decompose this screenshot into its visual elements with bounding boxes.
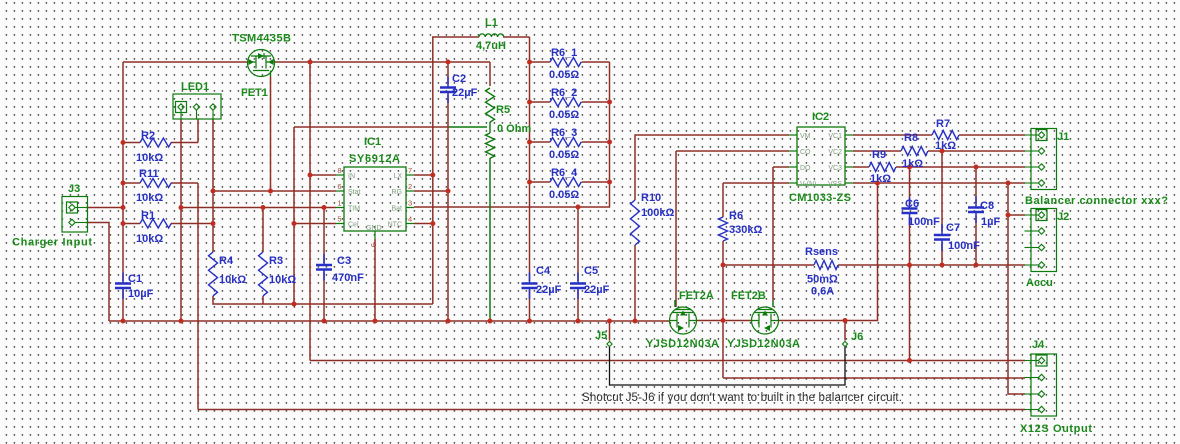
svg-text:FET1: FET1 xyxy=(241,87,268,99)
resistor R3 xyxy=(259,252,268,296)
junction R9 line/C8 xyxy=(974,165,979,170)
wire R6_4 row leads xyxy=(530,181,610,183)
connector J3 pin1 stub xyxy=(75,207,87,209)
svg-text:J3: J3 xyxy=(68,183,80,195)
wire VC3 lead to R9 xyxy=(853,166,869,168)
node J5 pad xyxy=(607,341,612,346)
svg-text:FET2A: FET2A xyxy=(679,290,714,302)
svg-text:IN: IN xyxy=(348,173,355,180)
junction Bat/C5 xyxy=(576,205,581,210)
junction R8 line/C7 column xyxy=(940,149,945,154)
svg-text:J4: J4 xyxy=(1032,339,1045,351)
capacitor C7 xyxy=(934,235,950,240)
svg-text:C5: C5 xyxy=(584,265,598,277)
connector LED1 box xyxy=(173,94,221,119)
transistor FET2B circle xyxy=(752,307,779,334)
svg-text:0.05Ω: 0.05Ω xyxy=(549,189,579,201)
resistor R9 xyxy=(869,163,896,172)
svg-text:L1: L1 xyxy=(485,17,498,29)
svg-text:IC1: IC1 xyxy=(364,136,381,148)
wire C6 net down to 359 rail xyxy=(909,265,911,361)
svg-text:J6: J6 xyxy=(851,331,863,343)
junction Stat end pad3 xyxy=(211,189,216,194)
svg-text:J5: J5 xyxy=(595,330,607,342)
wire C4 column below rail crossing Bat line xyxy=(529,280,531,283)
svg-text:VC1: VC1 xyxy=(828,133,842,140)
svg-text:C3: C3 xyxy=(337,255,351,267)
wire FET1 gate down to Stat line xyxy=(270,77,272,192)
wire Stat line from pad3 column to IC1 xyxy=(213,190,336,192)
capacitor C4 xyxy=(522,284,538,289)
wire LED1 pad1 column down to GND rail xyxy=(180,119,182,321)
junction TIM/R3 xyxy=(261,205,266,210)
wire L1 right to left rail top corner xyxy=(503,37,530,281)
wire Rsens rail left part xyxy=(723,264,814,266)
resistor R2 xyxy=(140,138,171,147)
junction GND/C5 xyxy=(576,319,581,324)
resistor R6_3 xyxy=(550,138,581,147)
junction VSS/x1008 xyxy=(1006,181,1011,186)
connector J4 pin 3 pad and stub xyxy=(1025,393,1039,395)
wire CO line corner down to FET2A gate xyxy=(676,151,789,307)
wire J2 pin1 branch xyxy=(1008,214,1025,216)
junction LX/x432 xyxy=(430,173,435,178)
svg-text:LED1: LED1 xyxy=(181,81,209,93)
junction GND/LED pad1 xyxy=(179,319,184,324)
junction GND/R10 xyxy=(633,319,638,324)
svg-text:0.05Ω: 0.05Ω xyxy=(549,149,579,161)
svg-text:NTC: NTC xyxy=(388,222,402,229)
wire FET1 drain line y=62 to R5 top corner xyxy=(275,62,491,86)
wire TIM line from pad1 column to IC1 xyxy=(181,207,336,209)
junction 359 rail/C6 net xyxy=(907,358,912,363)
wire J3 pad1 to left rail xyxy=(86,207,123,209)
wire FET2B gate lower green part xyxy=(772,301,774,307)
svg-text:Rsens: Rsens xyxy=(805,246,838,258)
svg-text:LX: LX xyxy=(393,173,402,180)
wire C7 column from R8 line down to Rsens rail xyxy=(941,151,943,265)
svg-text:0 Ohm: 0 Ohm xyxy=(497,123,531,135)
svg-text:Accu: Accu xyxy=(1026,277,1053,289)
junction right rail/R6_2 xyxy=(607,100,612,105)
wire left charger+ rail x=123 top corner down to C1 top plate xyxy=(122,62,124,281)
wire R5 mid tap line red part xyxy=(294,126,449,128)
svg-text:R9: R9 xyxy=(872,149,886,161)
svg-text:SY6912A: SY6912A xyxy=(349,153,400,165)
wire Rsens rail right part to J2 pin4 xyxy=(838,264,1025,266)
svg-text:FET2B: FET2B xyxy=(731,290,766,302)
wire J6 stub from FET line xyxy=(844,321,846,341)
svg-text:4,7uH: 4,7uH xyxy=(476,40,506,52)
svg-text:R6_2: R6_2 xyxy=(551,87,577,99)
svg-text:R1: R1 xyxy=(141,210,155,222)
wire J5 stub from GND rail xyxy=(609,321,611,341)
svg-text:VM: VM xyxy=(800,133,811,140)
connector J4 box xyxy=(1031,354,1057,416)
node J6 pad xyxy=(842,341,847,346)
resistor R6_1 xyxy=(550,58,581,67)
connector J1 pin 2 pad and stub xyxy=(1025,150,1039,152)
wire DO line corner down to FET2B gate xyxy=(773,167,789,301)
wire R9 right to J1 pin3 xyxy=(896,166,1025,168)
junction GND/R5 xyxy=(488,319,493,324)
svg-text:22µF: 22µF xyxy=(584,284,610,296)
connector J2 pin 1 pad and stub xyxy=(1025,214,1039,216)
resistor R5 lower zigzag xyxy=(486,133,495,158)
svg-text:VC2: VC2 xyxy=(828,149,842,156)
wire R2 right lead up to LED1 pad2 xyxy=(171,119,198,143)
svg-text:GND: GND xyxy=(366,225,382,232)
wire R6_3 row leads xyxy=(530,141,610,143)
svg-text:CM1033-ZS: CM1033-ZS xyxy=(789,192,851,204)
IC block IC2 box xyxy=(797,127,845,185)
wire R8 right to J1 pin2 with C7 branch xyxy=(928,150,1025,152)
connector J4 pin 4 pad and stub xyxy=(1025,409,1039,411)
capacitor C1 xyxy=(115,284,131,289)
wire R1 left lead xyxy=(123,223,140,225)
junction GND/IC1 GND xyxy=(373,319,378,324)
svg-text:9: 9 xyxy=(369,243,378,247)
junction RG/C2 column xyxy=(446,189,451,194)
capacitor C5 xyxy=(570,284,586,289)
connector J1 pin 3 pad and stub xyxy=(1025,166,1039,168)
svg-text:R5: R5 xyxy=(496,104,510,116)
wire IC1 GND pin down to GND rail xyxy=(374,239,376,321)
junction TIM/C3 xyxy=(322,205,327,210)
junction x294/rail304 xyxy=(292,302,297,307)
svg-text:C8: C8 xyxy=(980,200,994,212)
wire FET2A gate stub green xyxy=(674,300,676,307)
junction GND/C1 xyxy=(121,319,126,324)
junction Rsens rail/C7 xyxy=(940,263,945,268)
svg-text:50mΩ: 50mΩ xyxy=(807,274,838,286)
wire VC2 lead to R8 xyxy=(853,150,901,152)
svg-text:R6_3: R6_3 xyxy=(551,127,577,139)
wire R7 right to J1 pin1 xyxy=(959,134,1025,136)
wire charger+ top line from left rail to FET1 source xyxy=(123,61,248,63)
connector J3 box xyxy=(62,197,88,233)
junction R9 line/C6 xyxy=(907,165,912,170)
wire VSS rail y=183 from IC2 to J1 pin4 xyxy=(853,182,1025,184)
junction rail/R6_2 xyxy=(527,100,532,105)
resistor R10 xyxy=(631,200,640,245)
svg-text:Balancer connector xxx?: Balancer connector xxx? xyxy=(1025,195,1168,207)
connector J4 pin 2 pad and stub xyxy=(1025,377,1039,379)
junction left rail/R1 xyxy=(121,221,126,226)
resistor R7 xyxy=(932,131,959,140)
wire R5 mid tap line green part xyxy=(449,126,487,128)
wire R1 right lead to R4 top node xyxy=(171,223,213,225)
junction NTC/x432 xyxy=(430,221,435,226)
wire C8 bottom to Rsens rail xyxy=(975,216,977,266)
svg-text:R8: R8 xyxy=(904,132,918,144)
svg-text:1kΩ: 1kΩ xyxy=(935,140,956,152)
junction pad1 column/TIM line xyxy=(179,205,184,210)
transistor FET2B internals xyxy=(752,310,779,328)
wire x=1008 column VSS to J4 pin3 xyxy=(1008,183,1025,394)
inductor L1 xyxy=(479,34,504,37)
svg-text:R10: R10 xyxy=(641,192,661,204)
svg-text:100nF: 100nF xyxy=(908,216,940,228)
connector J2 pin1 square xyxy=(1036,210,1047,221)
svg-text:10kΩ: 10kΩ xyxy=(136,233,163,245)
wire C1 bottom lead to GND xyxy=(122,289,124,321)
op-amp/IC U-block IC1 box xyxy=(344,167,406,231)
wire jumper note J5-J6 black line xyxy=(610,347,846,385)
connector LED1 pin stubs down xyxy=(181,110,213,119)
resistor R8 xyxy=(901,147,928,156)
svg-text:Bat: Bat xyxy=(391,206,402,213)
svg-text:1µF: 1µF xyxy=(981,216,1000,228)
connector J2 pin 3 pad and stub xyxy=(1025,247,1039,249)
wire R2 left lead xyxy=(123,142,140,144)
svg-text:YJSD12N03A: YJSD12N03A xyxy=(727,338,800,350)
svg-text:0.05Ω: 0.05Ω xyxy=(549,69,579,81)
resistor R6 xyxy=(719,217,728,241)
svg-text:1kΩ: 1kΩ xyxy=(870,173,891,185)
svg-text:22µF: 22µF xyxy=(452,87,478,99)
wire V- line corner and R6 top lead xyxy=(723,183,789,217)
FET1 source/drain arrows xyxy=(249,59,255,65)
junction Rsens rail/R6 xyxy=(721,263,726,268)
svg-text:1kΩ: 1kΩ xyxy=(902,158,923,170)
svg-text:6: 6 xyxy=(337,182,341,191)
resistor R4 xyxy=(209,252,218,296)
svg-text:100kΩ: 100kΩ xyxy=(641,207,674,219)
capacitor C3 xyxy=(316,265,332,270)
connector LED1 pads xyxy=(178,104,184,110)
transistor FET2A circle xyxy=(670,307,697,334)
wire R6 column below FET line to 378 corner xyxy=(722,321,724,379)
wire R6 right rail x=609.5 xyxy=(414,62,610,207)
resistor R6_4 xyxy=(550,178,581,187)
resistor Rsens xyxy=(814,261,838,270)
svg-text:VC3: VC3 xyxy=(828,165,842,172)
wire R6_1 row leads xyxy=(530,61,610,63)
svg-text:CO: CO xyxy=(800,149,811,156)
svg-text:1: 1 xyxy=(337,199,341,208)
svg-text:YJSD12N03A: YJSD12N03A xyxy=(646,338,719,350)
wire C4 bottom to GND xyxy=(529,290,531,321)
svg-text:R3: R3 xyxy=(269,255,283,267)
svg-text:5: 5 xyxy=(337,215,341,224)
svg-text:R2: R2 xyxy=(141,130,155,142)
wire R6 bottom lead to Rsens rail junction and down to FET mid xyxy=(722,241,724,321)
svg-text:7: 7 xyxy=(408,166,412,175)
wire Cel line from x=294 to IC1 xyxy=(294,223,336,225)
wire IN net vertical x=310 from y62 down to 360 corner xyxy=(309,62,311,361)
junction R6 left rail rows xyxy=(527,60,532,65)
svg-text:RG: RG xyxy=(392,189,403,196)
junction GND/C4 xyxy=(527,319,532,324)
capacitor C8 xyxy=(968,208,984,213)
transistor FET1 internals xyxy=(248,56,275,77)
wire C6 column top xyxy=(909,167,911,205)
svg-text:R6_1: R6_1 xyxy=(551,47,577,59)
svg-text:TIM: TIM xyxy=(348,206,360,213)
wire R11 left lead xyxy=(123,182,140,184)
svg-text:2: 2 xyxy=(408,182,412,191)
connector J1 pin1 square xyxy=(1036,130,1047,141)
wire C3 column from TIM line to GND xyxy=(323,208,325,322)
junction Rsens rail/C6 xyxy=(907,263,912,268)
transistor FET1 TSM4435B circle xyxy=(248,50,275,77)
wire FET2B source to corner up x=877.5 xyxy=(779,183,878,321)
FET1 body diode arrow xyxy=(258,53,264,59)
svg-text:10kΩ: 10kΩ xyxy=(219,274,246,286)
wire 409 rail to J4 pin4 xyxy=(198,409,1025,411)
IC1 pin stubs xyxy=(336,175,414,239)
junction left rail/R11 xyxy=(121,181,126,186)
wire RG line from IC1 to C2 column xyxy=(414,190,448,192)
wire FET mid segment GND-FET2B xyxy=(697,320,751,322)
junction x1008/J2 pin1 xyxy=(1006,213,1011,218)
svg-text:8: 8 xyxy=(337,166,341,175)
connector J3 pin2 pad xyxy=(69,219,75,225)
junction FET1 gate/Stat xyxy=(268,189,273,194)
svg-text:Shotcut J5-J6 if you don't wan: Shotcut J5-J6 if you don't want to built… xyxy=(582,392,902,404)
svg-text:C2: C2 xyxy=(452,73,466,85)
capacitor C2 xyxy=(440,88,456,93)
svg-text:10µF: 10µF xyxy=(128,288,154,300)
svg-text:IC2: IC2 xyxy=(812,111,829,123)
svg-text:470nF: 470nF xyxy=(332,272,364,284)
svg-text:C4: C4 xyxy=(536,265,551,277)
connector J3 pin1 pad xyxy=(69,204,75,210)
wire R3 top feed from TIM line xyxy=(262,208,264,253)
wire NTC line from IC1 to x=432.8 xyxy=(414,223,433,225)
wire VC1 lead to R7 xyxy=(853,134,932,136)
junction GND/J5 xyxy=(607,319,612,324)
svg-text:Cel: Cel xyxy=(348,222,359,229)
svg-text:R11: R11 xyxy=(139,168,159,180)
svg-text:10kΩ: 10kΩ xyxy=(136,192,163,204)
svg-text:DO: DO xyxy=(800,165,811,172)
wire R10 bottom to GND xyxy=(634,245,636,321)
junction Rsens rail/C8 xyxy=(974,263,979,268)
resistor R5 lower section xyxy=(489,122,491,133)
resistor R6_2 xyxy=(550,98,581,107)
junction GND/C2 xyxy=(446,319,451,324)
svg-text:3: 3 xyxy=(408,199,412,208)
junction VSS/x877 xyxy=(875,181,880,186)
resistor R11 xyxy=(140,179,171,188)
IC2 pin stubs xyxy=(789,135,853,183)
wire C8 column from R9 line xyxy=(975,167,977,204)
connector J1 pin 4 pad and stub xyxy=(1025,182,1039,184)
capacitor C6 xyxy=(902,209,918,214)
svg-text:10kΩ: 10kΩ xyxy=(136,152,163,164)
FET2A arrows xyxy=(680,311,686,316)
svg-text:C6: C6 xyxy=(905,198,919,210)
svg-text:22µF: 22µF xyxy=(536,284,562,296)
junction R1/R4/pad3 node xyxy=(211,221,216,226)
wire C5 top lead from Bat line xyxy=(577,207,579,281)
svg-text:C1: C1 xyxy=(128,273,142,285)
svg-text:C7: C7 xyxy=(946,222,960,234)
connector LED1 pin1 square xyxy=(176,102,187,113)
wire R5 bottom lead to GND xyxy=(489,158,491,321)
svg-text:R6: R6 xyxy=(729,210,743,222)
connector J1 pin 1 pad and stub xyxy=(1025,134,1039,136)
svg-text:X12S Output: X12S Output xyxy=(1020,423,1092,435)
junction FET2B line/J6 xyxy=(843,318,848,323)
svg-text:TSM4435B: TSM4435B xyxy=(232,33,291,45)
wire R6_2 row leads xyxy=(530,101,610,103)
connector J4 pin1 square xyxy=(1036,355,1047,366)
connector J2 pin 2 pad and stub xyxy=(1025,230,1039,232)
junction rail/R6_4 xyxy=(527,180,532,185)
svg-text:Stat: Stat xyxy=(348,189,361,196)
svg-text:V-(N): V-(N) xyxy=(800,181,816,188)
junction left rail/R2 xyxy=(121,140,126,145)
resistor R5 upper section xyxy=(486,88,495,122)
connector J2 pin 4 pad and stub xyxy=(1025,264,1039,266)
connector J2 box xyxy=(1031,209,1057,272)
junction FET mid/R6 column xyxy=(721,318,726,323)
svg-text:100nF: 100nF xyxy=(948,240,980,252)
FET2B arrows xyxy=(762,311,768,316)
wire GND rail y=321 from x=109 to FET2A xyxy=(109,320,670,322)
transistor FET2A internals xyxy=(670,310,697,328)
wire J3 pad2 down to GND rail start xyxy=(86,223,109,322)
svg-text:Charger Input: Charger Input xyxy=(12,237,92,249)
wire R11 right lead to x=198 column down to 409 rail xyxy=(171,183,198,410)
junction right rail/R6_4 xyxy=(607,180,612,185)
svg-text:R7: R7 xyxy=(936,118,950,130)
wire 378 line to J4 pin2 xyxy=(723,377,1025,379)
wire L1 feed: LX up x=432.8, L1 line y=37, down R6 left rail x=529.5 xyxy=(414,37,479,304)
connector J1 box xyxy=(1031,129,1057,190)
svg-text:J1: J1 xyxy=(1057,131,1069,143)
junction GND/C3 xyxy=(322,319,327,324)
junction left rail/J3 xyxy=(121,205,126,210)
svg-text:330kΩ: 330kΩ xyxy=(729,224,762,236)
wire LED1 pad3 column down to R4 xyxy=(212,119,214,252)
wire C2 top lead from y62 xyxy=(447,62,449,84)
junction Cel branch xyxy=(292,221,297,226)
junction right rail/R6_3 xyxy=(607,140,612,145)
svg-text:VSS: VSS xyxy=(828,181,842,188)
junction y62/C2 xyxy=(446,60,451,65)
connector J3 pin1 square pad xyxy=(67,202,78,213)
junction IN line/x310 xyxy=(308,173,313,178)
wire R4/R3 bottom rail xyxy=(213,296,433,304)
connector J4 pin 1 pad and stub xyxy=(1025,360,1039,362)
svg-text:R6_4: R6_4 xyxy=(551,167,578,179)
wire R10 top corner to VM line xyxy=(635,135,789,200)
connector J3 pin2 stub xyxy=(75,222,87,224)
wire C5 bottom to GND xyxy=(577,290,579,321)
svg-text:10kΩ: 10kΩ xyxy=(269,274,296,286)
wire IN line into IC1 xyxy=(310,174,336,176)
wire C2 bottom column to GND with RG tap xyxy=(447,95,449,322)
resistor R1 xyxy=(140,219,171,228)
junction y62/IN xyxy=(308,60,313,65)
junction rail/R6_3 xyxy=(527,140,532,145)
wire C6 column bottom to Rsens rail xyxy=(909,217,911,265)
svg-text:J2: J2 xyxy=(1057,211,1069,223)
wire 359-rail from x=310 to J4 pin1 xyxy=(310,360,1025,362)
svg-text:R4: R4 xyxy=(219,255,234,267)
wire x=294 column from 127 to R4R3 bottom rail xyxy=(293,127,295,304)
svg-text:4: 4 xyxy=(408,215,412,224)
svg-text:0,6A: 0,6A xyxy=(811,286,834,298)
svg-text:0.05Ω: 0.05Ω xyxy=(549,109,579,121)
